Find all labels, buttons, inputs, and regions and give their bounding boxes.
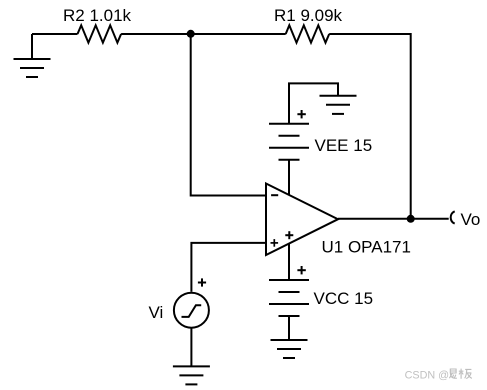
op-amp U1 — [266, 184, 338, 256]
wire — [288, 160, 290, 195]
ground — [320, 96, 357, 114]
source Vi — [174, 278, 209, 327]
wire — [32, 33, 78, 35]
wire — [338, 218, 449, 220]
node output junction — [407, 215, 415, 223]
svg-text:Vo: Vo — [461, 210, 481, 229]
battery VCC — [269, 266, 309, 316]
svg-text:CSDN @: CSDN @ — [405, 370, 450, 382]
ground — [173, 366, 210, 384]
node junction top — [187, 30, 195, 38]
wire — [288, 316, 290, 340]
svg-text:R2 1.01k: R2 1.01k — [63, 6, 132, 25]
svg-text:VEE 15: VEE 15 — [315, 136, 373, 155]
wire — [121, 33, 286, 35]
svg-text:U1 OPA171: U1 OPA171 — [322, 238, 411, 257]
svg-text:Vi: Vi — [149, 303, 164, 322]
svg-text:R1 9.09k: R1 9.09k — [274, 6, 343, 25]
resistor R1 — [286, 25, 330, 42]
wire — [191, 34, 266, 196]
wire — [191, 243, 266, 292]
battery VEE — [269, 110, 309, 160]
ground — [271, 340, 308, 358]
wire — [190, 328, 192, 367]
wire — [288, 244, 290, 280]
terminal Vo — [451, 211, 455, 223]
ground — [14, 34, 51, 77]
wire — [289, 83, 338, 123]
svg-text:VCC 15: VCC 15 — [314, 289, 374, 308]
wire — [329, 34, 411, 219]
resistor R2 — [78, 25, 122, 42]
